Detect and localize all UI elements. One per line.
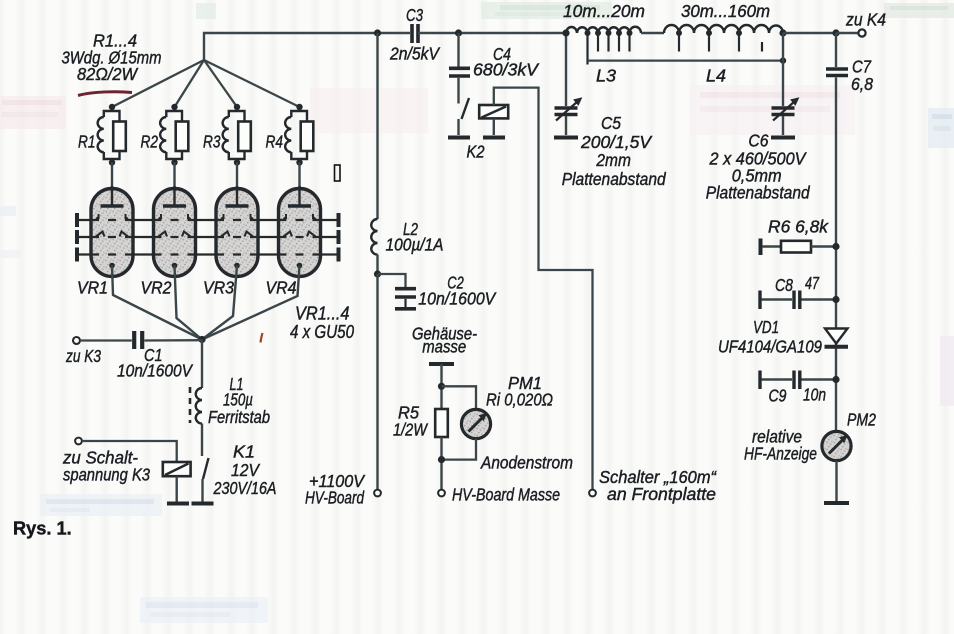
ground: K2 switch chassis bar bbox=[448, 136, 470, 140]
wire: bus L4 to C7 node bbox=[783, 32, 836, 34]
svg-text:L3: L3 bbox=[596, 66, 616, 86]
svg-text:10m...20m: 10m...20m bbox=[563, 1, 645, 21]
wire: junction to L1 bbox=[201, 340, 203, 389]
capacitor C7 bbox=[826, 57, 873, 95]
node: C8 junction bbox=[832, 296, 839, 303]
wire: grid rails g1/g2/g3 across tubes bbox=[77, 213, 339, 262]
resistor R3 with parallel coil bbox=[203, 104, 251, 205]
switch contact of K2 bbox=[462, 98, 470, 119]
terminal zu K3 bbox=[73, 337, 80, 344]
wire: down to +1100V terminal bbox=[376, 274, 378, 490]
capacitor C3 bbox=[389, 5, 441, 64]
resistor R1 with parallel coil bbox=[78, 104, 126, 205]
svg-text:an Frontplatte: an Frontplatte bbox=[607, 484, 716, 504]
svg-text:masse: masse bbox=[422, 337, 466, 357]
svg-text:680/3kV: 680/3kV bbox=[473, 60, 540, 80]
svg-text:12V: 12V bbox=[231, 460, 261, 480]
svg-text:Plattenabstand: Plattenabstand bbox=[706, 183, 811, 203]
svg-text:47: 47 bbox=[805, 273, 820, 293]
ground: C9 left bar bbox=[758, 371, 761, 390]
node: cathode junction bbox=[198, 336, 205, 343]
svg-text:VD1: VD1 bbox=[753, 317, 779, 337]
svg-text:6,8: 6,8 bbox=[851, 74, 873, 94]
svg-text:10n: 10n bbox=[803, 385, 826, 405]
node: C9 junction bbox=[832, 376, 839, 383]
terminal +1100V HV-Board bbox=[374, 490, 381, 497]
ground: Gehaeusemasse chassis bar bbox=[429, 362, 454, 366]
wire: L4 end down through tap line to C6 bbox=[782, 33, 784, 106]
wire: L2 to C2 junction bbox=[376, 255, 378, 275]
ground: PM2 chassis bar bbox=[824, 501, 849, 505]
svg-text:zu K4: zu K4 bbox=[845, 10, 886, 30]
svg-text:R3: R3 bbox=[203, 132, 221, 152]
label: R1...4 winding spec bbox=[62, 31, 162, 85]
relay coil K1 bbox=[163, 462, 191, 476]
svg-text:R1: R1 bbox=[78, 132, 96, 152]
terminal zu K4 bbox=[858, 29, 865, 36]
wire: L3 to L4 bbox=[641, 32, 664, 34]
svg-text:Anodenstrom: Anodenstrom bbox=[480, 453, 573, 473]
stray red tick artifact bbox=[261, 333, 263, 343]
ground: C8 left bar bbox=[758, 291, 761, 310]
node: L3/C5 junction bbox=[562, 29, 569, 36]
svg-text:zu K3: zu K3 bbox=[65, 346, 101, 366]
node: C2 junction bbox=[374, 270, 381, 277]
svg-text:HV-Board Masse: HV-Board Masse bbox=[452, 485, 560, 505]
ground: C6 chassis bar bbox=[771, 136, 795, 140]
wire: zu K3 to C1 bbox=[80, 339, 132, 341]
svg-text:Plattenabstand: Plattenabstand bbox=[562, 169, 667, 189]
meter PM2 bbox=[822, 410, 876, 461]
wire: cathode lead VR2 bbox=[175, 266, 203, 340]
wire: fan lead to R1 bbox=[112, 60, 204, 107]
svg-text:2n/5kV: 2n/5kV bbox=[389, 44, 441, 64]
svg-text:L4: L4 bbox=[706, 66, 726, 86]
wire: L3 tap line to L4 end bbox=[588, 59, 784, 61]
wire: bus to C4 bbox=[457, 33, 459, 67]
svg-text:VR1...4: VR1...4 bbox=[295, 304, 350, 324]
wire: C1 to cathode junction bbox=[145, 339, 203, 342]
node: junction of top bus and L2 drop bbox=[374, 29, 381, 36]
variable capacitor C6 bbox=[706, 98, 811, 203]
variable capacitor C5 bbox=[555, 98, 667, 189]
meter PM1 bbox=[461, 373, 553, 439]
wire: fan lead to R3 bbox=[204, 60, 237, 107]
wire: C7 drop bbox=[835, 33, 837, 67]
terminal zu Schaltspannung K3 bbox=[75, 438, 82, 445]
svg-text:Ri 0,020Ω: Ri 0,020Ω bbox=[486, 390, 553, 410]
node: C4 branch junction bbox=[455, 29, 462, 36]
capacitor C9 bbox=[762, 371, 837, 406]
svg-text:VR1: VR1 bbox=[77, 278, 108, 298]
wire: R5 bottom to PM1 bottom bbox=[440, 437, 442, 490]
svg-text:PM2: PM2 bbox=[847, 410, 876, 430]
svg-text:C9: C9 bbox=[769, 386, 787, 406]
wire: bus drop to L2 bbox=[376, 33, 378, 219]
svg-text:HF-Anzeige: HF-Anzeige bbox=[744, 444, 817, 464]
svg-text:2mm: 2mm bbox=[596, 150, 631, 170]
relay coil K2 bbox=[479, 105, 508, 118]
svg-text:82Ω/2W: 82Ω/2W bbox=[77, 64, 138, 84]
inductor L2 bbox=[371, 219, 443, 255]
node: C7 junction bbox=[832, 29, 839, 36]
terminal HV-Board Masse bbox=[438, 490, 445, 497]
switch contact of K1 bbox=[203, 458, 209, 479]
wire: bus to C5 bbox=[565, 33, 567, 106]
label: relative HF-Anzeige bbox=[744, 427, 817, 464]
svg-text:Rys. 1.: Rys. 1. bbox=[13, 519, 72, 539]
capacitor C2 bbox=[395, 273, 497, 309]
resistor R2 with parallel coil bbox=[141, 104, 189, 205]
tofu box artifact bbox=[335, 165, 341, 181]
tube VR1 (GU50) bbox=[91, 186, 133, 277]
inductor L4 bbox=[664, 25, 783, 86]
wire: bar down to R5 top node bbox=[440, 364, 442, 409]
svg-text:C8: C8 bbox=[775, 275, 793, 295]
node: L4 end junction bbox=[779, 29, 786, 36]
svg-text:R6 6,8k: R6 6,8k bbox=[768, 217, 829, 237]
resistor R6 bbox=[762, 217, 836, 253]
svg-text:VR3: VR3 bbox=[203, 278, 234, 298]
svg-text:1/2W: 1/2W bbox=[393, 420, 428, 440]
node: R6 junction bbox=[832, 243, 839, 250]
capacitor C8 bbox=[762, 273, 837, 309]
svg-text:R4: R4 bbox=[266, 132, 284, 152]
inductor L1 with ferrite rod bbox=[190, 374, 270, 427]
tube VR3 (GU50) bbox=[216, 186, 258, 277]
node: R5/PM1 bottom junction bbox=[438, 456, 445, 463]
resistor R4 with parallel coil bbox=[266, 104, 314, 205]
wire: K2 coil to ground bbox=[493, 118, 495, 135]
svg-text:K2: K2 bbox=[467, 142, 485, 162]
label: Schalter 160m an Frontplatte bbox=[599, 467, 717, 504]
wire: top junction to PM1 bbox=[442, 386, 477, 409]
svg-text:4 x GU50: 4 x GU50 bbox=[290, 322, 354, 342]
svg-text:HV-Board: HV-Board bbox=[305, 488, 365, 508]
resistor R5 bbox=[393, 403, 448, 440]
wire: C7 down through R6/C8/VD1/C9 nodes to PM2 bbox=[835, 78, 837, 433]
wire: relay K1 to ground bbox=[175, 476, 177, 502]
ground: relay K1 chassis bar bbox=[167, 502, 189, 506]
wire: bus C3 to C4 node bbox=[418, 32, 566, 34]
red hand-drawn underline bbox=[78, 92, 132, 96]
label: +1100V HV-Board bbox=[305, 471, 366, 508]
svg-text:VR4: VR4 bbox=[266, 278, 297, 298]
tube VR2 (GU50) bbox=[154, 186, 196, 277]
wire: to zu K4 terminal bbox=[836, 32, 859, 34]
wire: C4 to K2 switch bbox=[457, 78, 459, 104]
wire: to relay coil K1 bbox=[82, 441, 177, 462]
label: Gehaeuse-masse bbox=[412, 324, 477, 357]
svg-text:K1: K1 bbox=[233, 442, 255, 462]
wire: junction to C2 bbox=[378, 274, 406, 287]
inductor L3 bbox=[566, 27, 641, 86]
svg-text:C5: C5 bbox=[601, 113, 621, 133]
wire: C5 to ground bbox=[565, 116, 567, 135]
svg-text:UF4104/GA109: UF4104/GA109 bbox=[718, 337, 822, 357]
ground: C2 chassis bar bbox=[395, 307, 416, 311]
diode VD1 bbox=[718, 317, 848, 357]
ground: C5 chassis bar bbox=[554, 136, 578, 140]
tube VR4 (GU50) bbox=[279, 186, 321, 277]
node: R5/PM1 top junction bbox=[438, 383, 445, 390]
svg-text:C6: C6 bbox=[748, 131, 768, 151]
label: zu Schaltspannung K3 bbox=[62, 448, 150, 485]
wire: PM2 to ground bbox=[835, 461, 837, 502]
wire: cathode lead VR3 bbox=[202, 266, 237, 340]
wire: cathode lead VR4 bbox=[202, 266, 300, 340]
svg-text:30m...160m: 30m...160m bbox=[681, 1, 770, 21]
capacitor C1 bbox=[117, 331, 194, 381]
svg-text:10n/1600V: 10n/1600V bbox=[117, 361, 194, 381]
svg-text:VR2: VR2 bbox=[141, 278, 172, 298]
label: K1 values bbox=[213, 442, 277, 499]
wire: fan lead to R2 bbox=[175, 60, 205, 107]
ground: switch K1 chassis bar bbox=[192, 502, 214, 506]
label: VR1...4 = 4 x GU50 bbox=[290, 304, 354, 343]
wire: fan lead to R4 bbox=[204, 60, 300, 107]
wire: K2 coil top to Schalter 160m line bbox=[494, 88, 593, 490]
svg-text:C3: C3 bbox=[406, 5, 423, 25]
wire: L1 to switch K1 bbox=[201, 424, 203, 457]
node: tap line at L4 end bbox=[780, 57, 786, 63]
svg-text:230V/16A: 230V/16A bbox=[213, 478, 277, 498]
svg-text:R2: R2 bbox=[141, 132, 159, 152]
svg-text:10n/1600V: 10n/1600V bbox=[418, 289, 497, 309]
wire: top anode bus from fan corner to C3 bbox=[204, 33, 410, 60]
capacitor C4 bbox=[449, 44, 540, 80]
ground: K2 coil chassis bar bbox=[483, 136, 505, 140]
terminal Schalter 160m bbox=[589, 490, 596, 497]
svg-text:Ferritstab: Ferritstab bbox=[208, 407, 270, 427]
svg-text:spannung K3: spannung K3 bbox=[63, 465, 150, 485]
ground: R6 left bar bbox=[759, 239, 763, 256]
wire: cathode lead VR1 bbox=[112, 266, 202, 340]
svg-text:100µ/1A: 100µ/1A bbox=[386, 235, 444, 255]
wire: C6 to ground bbox=[782, 116, 784, 135]
svg-text:200/1,5V: 200/1,5V bbox=[580, 132, 653, 152]
